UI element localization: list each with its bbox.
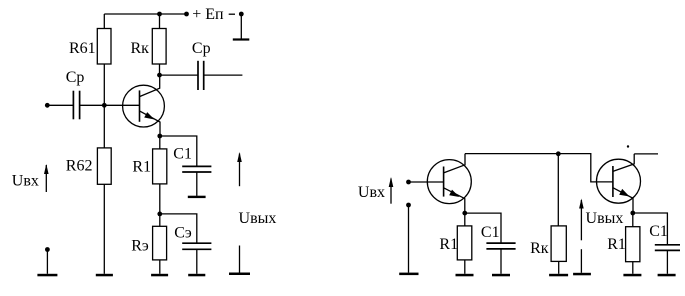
node emitter RC junction bbox=[157, 212, 162, 217]
node VT1 emitter junction bbox=[462, 211, 467, 216]
node lower input terminal bbox=[45, 247, 50, 252]
label minus sign bbox=[229, 13, 235, 15]
capacitor C1 second right bbox=[655, 245, 680, 274]
svg-text:Cэ: Cэ bbox=[174, 225, 192, 242]
node junction top rail / Rk bbox=[157, 12, 162, 17]
wire Cp output right lead bbox=[204, 74, 243, 76]
wire input to T1 base bbox=[409, 181, 444, 183]
node collector junction bbox=[157, 73, 162, 78]
arrow Uvyx right bbox=[579, 199, 584, 241]
ground input right bbox=[399, 273, 418, 276]
node Rk junction right bbox=[556, 151, 561, 156]
node stray dot bbox=[627, 145, 629, 147]
ground R1 second right bbox=[623, 274, 641, 277]
resistor R1 first right bbox=[457, 213, 472, 274]
ground Uvyx left bbox=[229, 273, 250, 276]
node VT2 emitter junction bbox=[630, 211, 635, 216]
capacitor C1 bbox=[182, 166, 211, 196]
node input terminal bbox=[45, 103, 50, 108]
svg-text:Uвых: Uвых bbox=[239, 210, 277, 227]
wire lower terminal lead right bbox=[408, 205, 410, 273]
wire emitter to C1 first right bbox=[465, 213, 501, 243]
svg-text:R1: R1 bbox=[439, 236, 458, 253]
wire node to Ce bbox=[160, 214, 197, 243]
wire base bbox=[80, 104, 140, 106]
svg-text:C1: C1 bbox=[481, 224, 500, 241]
wire emitter to C1 second right bbox=[633, 213, 668, 245]
node emitter junction bbox=[157, 134, 162, 139]
ground C1 bbox=[188, 196, 206, 198]
svg-text:Cp: Cp bbox=[192, 40, 211, 57]
resistor Re bbox=[153, 214, 167, 274]
resistor R1 bbox=[153, 136, 167, 214]
node terminal dot +Ep left bbox=[184, 12, 189, 17]
ground Ce bbox=[188, 274, 205, 277]
wire lower terminal lead bbox=[46, 250, 48, 274]
capacitor Ce bbox=[182, 243, 211, 274]
resistor R1 second right bbox=[626, 213, 640, 274]
arrow Uvx right bbox=[389, 177, 394, 204]
node lower input terminal right bbox=[406, 203, 411, 208]
resistor R61 bbox=[97, 14, 111, 64]
svg-text:Rк: Rк bbox=[530, 240, 549, 257]
terminal bar +Ep bbox=[233, 38, 250, 40]
transistor VT1 right bbox=[427, 154, 471, 214]
svg-text:C1: C1 bbox=[649, 223, 668, 240]
wire top rail right bbox=[465, 154, 613, 182]
resistor Rk bbox=[152, 14, 166, 75]
svg-text:R61: R61 bbox=[69, 40, 96, 57]
wire collector output to Cp bbox=[160, 74, 199, 76]
arrow Uvx left bbox=[44, 164, 49, 192]
svg-text:Rэ: Rэ bbox=[131, 237, 149, 254]
wire VT2 collector top bbox=[634, 153, 658, 155]
svg-text:+ Eп: + Eп bbox=[192, 6, 224, 23]
wire top supply rail bbox=[104, 13, 186, 15]
ground Rk right bbox=[549, 274, 568, 277]
node input terminal right bbox=[406, 180, 411, 185]
ground Uvyx right bbox=[573, 273, 591, 276]
node base divider junction bbox=[102, 103, 107, 108]
wire Uvyx terminal lead bbox=[239, 246, 241, 273]
wire +Ep terminal lead bbox=[240, 14, 242, 39]
svg-text:Uвых: Uвых bbox=[586, 210, 624, 227]
ground C1 second right bbox=[658, 274, 676, 277]
svg-text:R1: R1 bbox=[607, 236, 626, 253]
svg-text:Uвх: Uвх bbox=[358, 184, 385, 201]
wire emitter node to C1 bbox=[160, 136, 197, 166]
svg-text:Uвх: Uвх bbox=[12, 173, 39, 190]
capacitor Cp input bbox=[73, 91, 79, 120]
wire Uvyx terminal lead right bbox=[580, 249, 582, 273]
arrow Uvyx left bbox=[237, 152, 242, 186]
ground R1 first right bbox=[456, 274, 474, 277]
wire R61 bottom to R62 top bbox=[103, 64, 105, 148]
svg-text:R62: R62 bbox=[66, 158, 93, 175]
ground Re bbox=[151, 274, 168, 277]
ground input terminal bbox=[37, 274, 57, 277]
ground R62 bbox=[96, 274, 113, 277]
transistor VT left bbox=[123, 75, 165, 136]
capacitor C1 first right bbox=[486, 243, 515, 274]
resistor Rk right bbox=[551, 154, 566, 274]
terminal +Ep right dot bbox=[239, 12, 244, 17]
resistor R62 bbox=[97, 148, 111, 274]
svg-text:R1: R1 bbox=[132, 159, 151, 176]
transistor VT2 right bbox=[597, 154, 641, 213]
capacitor Cp output bbox=[198, 61, 204, 90]
svg-text:Cp: Cp bbox=[66, 69, 85, 86]
svg-text:Rк: Rк bbox=[131, 40, 150, 57]
wire input to Cp bbox=[47, 104, 73, 106]
svg-text:C1: C1 bbox=[173, 146, 192, 163]
ground C1 first right bbox=[492, 274, 510, 277]
